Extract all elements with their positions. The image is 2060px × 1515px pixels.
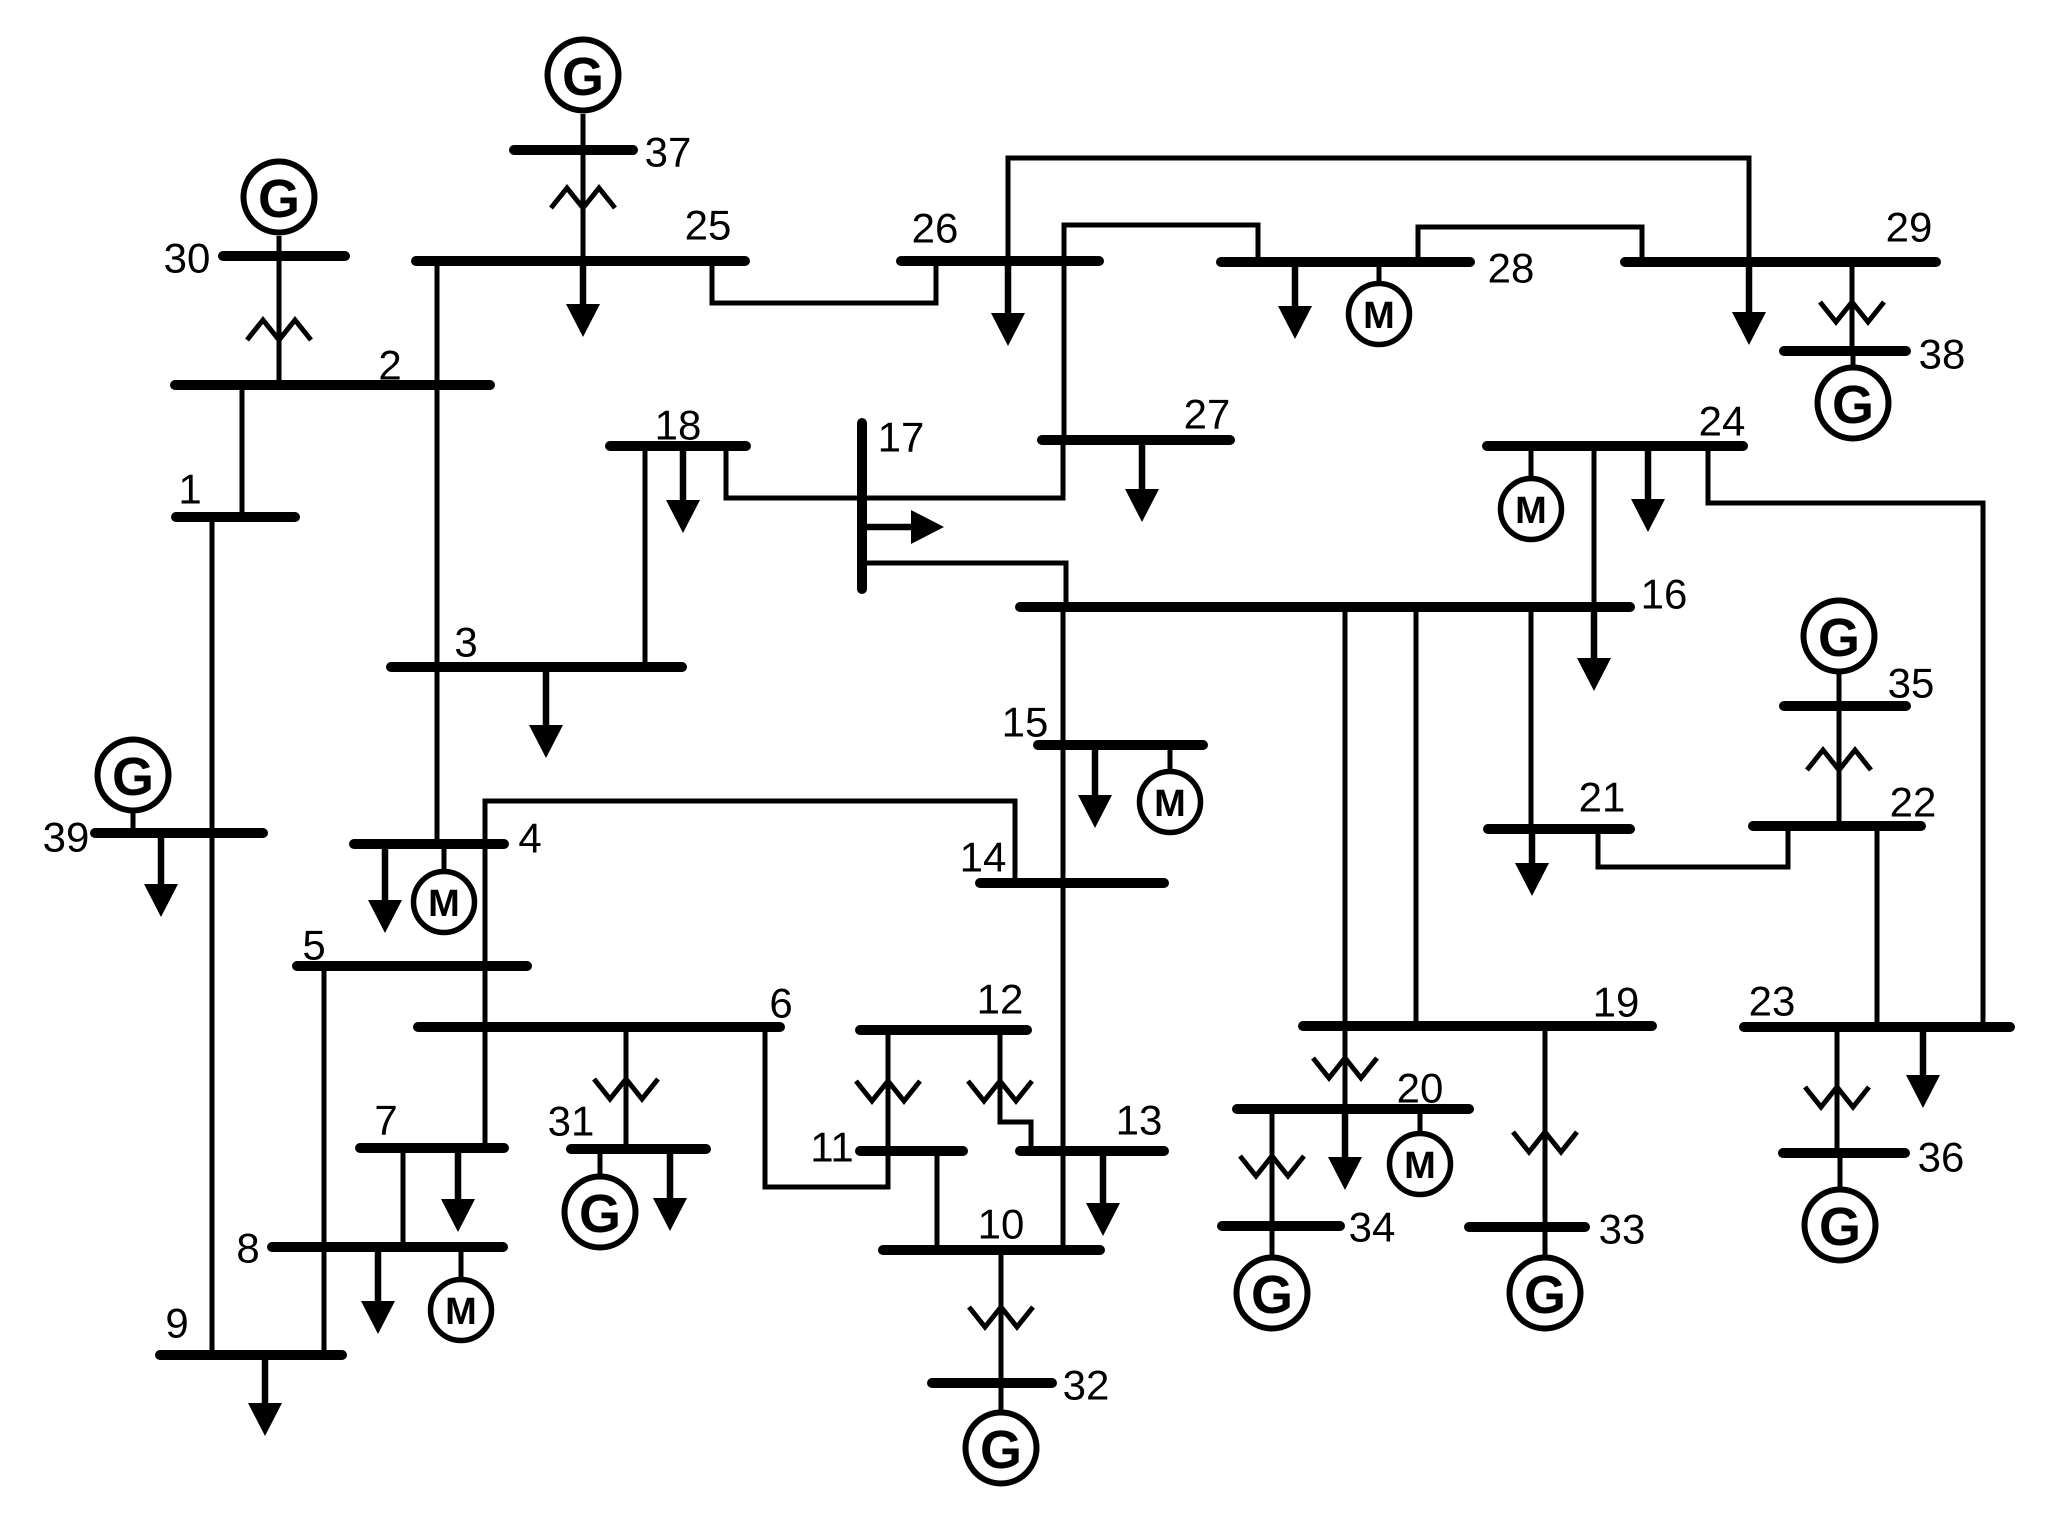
load arrow bus 8 xyxy=(375,1252,382,1304)
svg-text:10: 10 xyxy=(978,1201,1025,1248)
svg-text:34: 34 xyxy=(1349,1204,1396,1251)
svg-text:30: 30 xyxy=(164,235,211,282)
bus 16 xyxy=(1020,602,1630,612)
bus 12 xyxy=(860,1025,1027,1035)
wire 18-17-27 (through bus 17) xyxy=(726,445,1063,498)
wire 17-16 xyxy=(862,563,1066,602)
svg-text:G: G xyxy=(579,1184,621,1244)
svg-text:33: 33 xyxy=(1599,1206,1646,1253)
wire 6-31 xyxy=(624,1032,629,1144)
svg-text:23: 23 xyxy=(1749,978,1796,1025)
bus 14 xyxy=(980,878,1164,888)
wire 28-29 xyxy=(1418,227,1642,257)
motor M20 xyxy=(1390,1134,1451,1195)
wire 22-23 xyxy=(1875,831,1880,1022)
bus 27 xyxy=(1042,435,1230,445)
wire 26-28 xyxy=(1064,225,1258,257)
wire 10-32 xyxy=(999,1255,1004,1378)
svg-text:25: 25 xyxy=(685,202,732,249)
svg-text:16: 16 xyxy=(1641,571,1688,618)
wire 2-1 xyxy=(240,390,245,512)
svg-text:31: 31 xyxy=(548,1098,595,1145)
wire 4-14 xyxy=(485,801,1015,878)
svg-text:21: 21 xyxy=(1579,774,1626,821)
wire 5-8-9 (through bus 8) xyxy=(322,971,327,1350)
bus 21 xyxy=(1488,824,1630,834)
load arrow bus 26 xyxy=(1005,266,1012,316)
wire 25-26 xyxy=(712,266,936,303)
bus 36 xyxy=(1783,1148,1905,1158)
svg-text:18: 18 xyxy=(655,402,702,449)
load arrow bus 17 (horizontal, points right) xyxy=(862,524,913,531)
wire 25-2-3-4 (through buses 2 and 3) xyxy=(435,266,440,839)
wire 35-22 xyxy=(1837,711,1842,821)
bus 25 xyxy=(416,256,745,266)
load arrow bus 29 xyxy=(1746,267,1753,315)
transformer 19-33 xyxy=(1513,1132,1577,1152)
svg-text:G: G xyxy=(258,169,300,229)
load arrow bus 7 xyxy=(455,1153,462,1202)
load arrow bus 24 xyxy=(1645,451,1652,502)
svg-text:14: 14 xyxy=(960,834,1007,881)
motor M28 xyxy=(1349,284,1410,345)
wire 26-27 xyxy=(1062,266,1067,435)
wire G36-36 xyxy=(1838,1158,1843,1187)
wire 12-13 xyxy=(1000,1035,1031,1146)
bus 15 xyxy=(1038,740,1203,750)
svg-text:4: 4 xyxy=(518,815,541,862)
svg-text:M: M xyxy=(1515,490,1547,532)
bus 4 xyxy=(354,839,504,849)
bus 37 xyxy=(514,145,633,155)
wire 26-29 xyxy=(1008,158,1749,257)
svg-text:G: G xyxy=(1251,1265,1293,1325)
wire 4-5-6-7 (through buses 5 and 6) xyxy=(483,849,488,1143)
bus 13 xyxy=(1020,1146,1164,1156)
bus 22 xyxy=(1753,821,1921,831)
generator G31 xyxy=(565,1177,636,1248)
svg-text:29: 29 xyxy=(1886,204,1933,251)
transformer 29-38 xyxy=(1820,302,1884,322)
bus 2 xyxy=(175,380,490,390)
transformer 10-32 xyxy=(969,1307,1033,1327)
transformer 6-31 xyxy=(594,1079,658,1099)
svg-text:G: G xyxy=(1524,1265,1566,1325)
svg-text:27: 27 xyxy=(1184,391,1231,438)
wire 19-33 xyxy=(1543,1031,1548,1222)
wire M28-28 xyxy=(1377,267,1382,283)
svg-text:22: 22 xyxy=(1890,779,1937,826)
bus 3 xyxy=(391,662,682,672)
svg-text:M: M xyxy=(1154,783,1186,825)
svg-text:11: 11 xyxy=(810,1124,854,1171)
wire 1-39-9 (through bus 39) xyxy=(210,522,215,1350)
bus 29 xyxy=(1625,257,1936,267)
generator G39 xyxy=(98,740,169,811)
generator G33 xyxy=(1510,1258,1581,1329)
wire G39-39 xyxy=(131,813,136,828)
wire 18-3 xyxy=(643,451,648,662)
generator G30 xyxy=(244,162,315,233)
motor M15 xyxy=(1140,772,1201,833)
transformer 2-30 xyxy=(247,320,311,340)
transformer 19-20 xyxy=(1313,1058,1377,1078)
svg-text:2: 2 xyxy=(378,342,401,389)
load arrow bus 27 xyxy=(1139,445,1146,492)
svg-text:13: 13 xyxy=(1116,1097,1163,1144)
motor M24 xyxy=(1501,479,1562,540)
transformer 25-37 xyxy=(551,188,615,208)
svg-text:G: G xyxy=(562,47,604,107)
generator G38 xyxy=(1818,368,1889,439)
svg-text:M: M xyxy=(445,1291,477,1333)
bus 5 xyxy=(297,961,527,971)
svg-text:35: 35 xyxy=(1888,660,1935,707)
svg-text:36: 36 xyxy=(1918,1134,1965,1181)
load arrow bus 18 xyxy=(680,451,687,503)
bus 1 xyxy=(176,512,295,522)
wire 16-19-20 (through bus 19) xyxy=(1343,612,1348,1104)
wire 20-34 xyxy=(1270,1114,1275,1221)
svg-text:G: G xyxy=(1832,375,1874,435)
wire M15-15 xyxy=(1168,750,1173,771)
wire 29-38 xyxy=(1850,267,1855,346)
bus 11 xyxy=(860,1146,963,1156)
load arrow bus 3 xyxy=(543,672,550,728)
bus 23 xyxy=(1744,1022,2010,1032)
svg-text:G: G xyxy=(1818,608,1860,668)
load arrow bus 9 xyxy=(262,1360,269,1406)
wire G33-33 xyxy=(1543,1232,1548,1255)
load arrow bus 25 xyxy=(580,266,587,307)
bus 8 xyxy=(272,1242,503,1252)
svg-text:7: 7 xyxy=(374,1097,397,1144)
wire G31-31 xyxy=(598,1154,603,1174)
load arrow bus 20 xyxy=(1342,1114,1349,1160)
bus 10 xyxy=(883,1245,1100,1255)
generator G36 xyxy=(1805,1190,1876,1261)
wire 21-22 xyxy=(1598,831,1788,867)
svg-text:20: 20 xyxy=(1397,1065,1444,1112)
bus 33 xyxy=(1469,1222,1585,1232)
svg-text:G: G xyxy=(112,747,154,807)
generator G32 xyxy=(966,1413,1037,1484)
wire M24-24 xyxy=(1529,451,1534,478)
wire G32-32 xyxy=(999,1388,1004,1410)
bus 31 xyxy=(571,1144,706,1154)
wire 24-16 xyxy=(1592,451,1597,602)
bus 30 xyxy=(223,251,345,261)
wire 16-19 xyxy=(1414,612,1419,1021)
bus 35 xyxy=(1784,701,1906,711)
wire M20-20 xyxy=(1418,1114,1423,1133)
svg-text:24: 24 xyxy=(1699,398,1746,445)
svg-text:9: 9 xyxy=(165,1300,188,1347)
svg-text:M: M xyxy=(428,883,460,925)
wire 16-21 xyxy=(1529,612,1534,824)
generator G35 xyxy=(1804,601,1875,672)
motor M8 xyxy=(431,1280,492,1341)
wire 11-10 xyxy=(935,1156,940,1245)
svg-text:6: 6 xyxy=(769,980,792,1027)
load arrow bus 31 xyxy=(667,1154,674,1201)
svg-text:26: 26 xyxy=(912,205,959,252)
load arrow bus 28 xyxy=(1292,267,1299,309)
svg-text:G: G xyxy=(1819,1197,1861,1257)
svg-text:8: 8 xyxy=(236,1225,259,1272)
wire 23-36 xyxy=(1835,1032,1840,1148)
transformer 23-36 xyxy=(1805,1087,1869,1107)
bus 6 xyxy=(418,1022,780,1032)
svg-text:17: 17 xyxy=(878,414,925,461)
bus 24 xyxy=(1487,441,1743,451)
load arrow bus 39 xyxy=(158,838,165,887)
bus 38 xyxy=(1784,346,1906,356)
svg-text:38: 38 xyxy=(1919,331,1966,378)
transformer 20-34 xyxy=(1240,1156,1304,1176)
generator G37 xyxy=(548,40,619,111)
wire G34-34 xyxy=(1270,1231,1275,1255)
transformer 12-13 xyxy=(968,1081,1032,1101)
bus 7 xyxy=(360,1143,504,1153)
load arrow bus 15 xyxy=(1092,750,1099,798)
svg-text:12: 12 xyxy=(977,976,1024,1023)
wire G30-30-2 (through bus 30) xyxy=(277,236,282,380)
svg-text:15: 15 xyxy=(1002,699,1049,746)
svg-text:39: 39 xyxy=(43,814,90,861)
wire G37-37-25 (through bus 37) xyxy=(581,114,586,256)
bus 20 xyxy=(1237,1104,1469,1114)
svg-text:M: M xyxy=(1404,1145,1436,1187)
svg-text:M: M xyxy=(1363,295,1395,337)
wire 6-11 xyxy=(765,1032,888,1187)
bus 32 xyxy=(932,1378,1052,1388)
transformer 22-35 xyxy=(1807,750,1871,770)
bus 18 xyxy=(610,441,746,451)
wire M4-4 xyxy=(442,849,447,871)
svg-text:G: G xyxy=(980,1420,1022,1480)
bus 26 xyxy=(901,256,1099,266)
transformer 12-11 xyxy=(856,1081,920,1101)
bus 39 xyxy=(95,828,263,838)
generator G34 xyxy=(1237,1258,1308,1329)
wire 24-23 xyxy=(1708,451,1983,1022)
load arrow bus 16 xyxy=(1591,612,1598,661)
bus 9 xyxy=(160,1350,342,1360)
bus 17 (vertical bar) xyxy=(857,423,867,589)
svg-text:3: 3 xyxy=(454,619,477,666)
bus 19 xyxy=(1303,1021,1652,1031)
bus 28 xyxy=(1221,257,1470,267)
wire G35-35 xyxy=(1837,674,1842,701)
svg-text:32: 32 xyxy=(1063,1362,1110,1409)
bus 34 xyxy=(1222,1221,1340,1231)
load arrow bus 4 xyxy=(382,849,389,903)
svg-text:19: 19 xyxy=(1593,979,1640,1026)
wire M8-8 xyxy=(459,1252,464,1279)
wire 16-15-14-13-10 (through buses 15,14,13) xyxy=(1061,612,1066,1245)
wire 12-11 xyxy=(886,1035,891,1146)
svg-text:37: 37 xyxy=(645,129,692,176)
svg-text:1: 1 xyxy=(178,466,201,513)
svg-text:5: 5 xyxy=(302,922,325,969)
load arrow bus 21 xyxy=(1529,834,1536,866)
motor M4 xyxy=(414,872,475,933)
svg-text:28: 28 xyxy=(1488,245,1535,292)
wire 7-8 xyxy=(401,1153,406,1242)
load arrow bus 13 xyxy=(1100,1156,1107,1206)
wire G38-38 xyxy=(1851,356,1856,365)
load arrow bus 23 xyxy=(1920,1032,1927,1078)
